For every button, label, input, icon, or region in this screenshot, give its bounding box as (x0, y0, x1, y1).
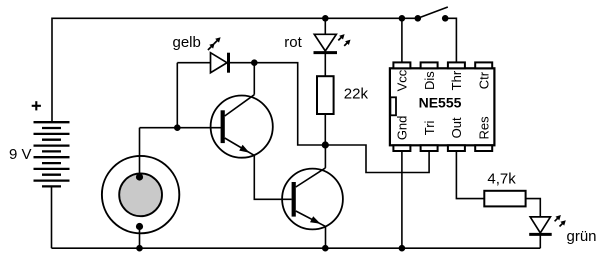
LED gruen (529, 217, 552, 248)
svg-text:Thr: Thr (449, 70, 464, 90)
wire gelb cathode to x297 column (254, 63, 325, 145)
svg-text:Out: Out (449, 117, 464, 138)
IC pin Ctr box (475, 62, 492, 68)
svg-text:Dis: Dis (422, 71, 437, 90)
LED gelb (177, 53, 254, 73)
LED gelb light arrows (208, 37, 221, 50)
battery B1 9V (34, 122, 70, 186)
wire Q2 emitter down (325, 226, 327, 248)
wire top rail right segment (445, 18, 456, 63)
sensor probe outer circle (102, 156, 179, 233)
IC pin Out box (448, 145, 465, 151)
node sensor top dot (136, 173, 143, 180)
svg-text:9 V: 9 V (9, 146, 32, 163)
wire battery minus to bottom rail (51, 186, 53, 248)
svg-text:Tri: Tri (422, 120, 437, 135)
svg-text:Ctr: Ctr (476, 71, 491, 89)
svg-text:Vcc: Vcc (395, 69, 410, 91)
svg-text:Res: Res (476, 116, 491, 140)
wire 22k to junction (324, 114, 326, 145)
wire bottom rail (52, 247, 541, 249)
transistor Q2 (282, 168, 343, 230)
LED gruen light arrows (555, 215, 566, 227)
wire Gnd pin to rail (401, 151, 403, 248)
node sensor rail junction (136, 245, 143, 252)
wire junction to Tri pin (325, 145, 429, 173)
LED rot (314, 18, 338, 76)
node Gnd rail junction (399, 245, 406, 252)
svg-text:Gnd: Gnd (395, 116, 410, 141)
IC pin Dis box (421, 62, 438, 68)
transistor Q1 (211, 95, 273, 158)
LED rot light arrows (338, 34, 350, 46)
svg-text:rot: rot (284, 34, 302, 51)
switch contact dot (442, 15, 449, 22)
wire top rail left segment (52, 18, 418, 122)
wire Q2 collector up (324, 145, 326, 168)
wire 4,7k to gruen LED (526, 199, 541, 217)
IC pin Thr box (448, 62, 465, 68)
node gelb cathode junction (251, 59, 258, 66)
switch pivot dot (415, 15, 422, 22)
node collector junction (322, 141, 329, 148)
wire gelb anode branch (176, 63, 178, 128)
node gelb branch junction (174, 124, 181, 131)
IC U1 NE555 body (390, 68, 495, 145)
svg-text:NE555: NE555 (419, 95, 462, 111)
wire Vcc pin to rail (401, 18, 403, 63)
sensor probe inner electrode (119, 173, 162, 216)
switch S1 lever (418, 7, 448, 18)
IC notch marker (390, 97, 396, 115)
resistor R1 22k (317, 76, 334, 114)
resistor R2 4,7k (484, 191, 525, 207)
IC pin Vcc box (393, 62, 410, 68)
IC pin Tri box (421, 145, 438, 151)
battery plus sign (32, 101, 41, 110)
wire sensor top (139, 128, 141, 177)
IC pin Gnd box (393, 145, 410, 151)
wire Q1 emitter to Q2 base (254, 155, 291, 199)
wire Out pin to 4,7k (456, 151, 484, 199)
svg-text:4,7k: 4,7k (487, 171, 516, 188)
node rot rail junction (322, 15, 329, 22)
wire sensor bottom (139, 227, 141, 249)
node sensor bottom dot (136, 223, 143, 230)
svg-text:grün: grün (567, 228, 597, 245)
wire Q1 collector up (253, 63, 255, 95)
svg-text:gelb: gelb (173, 34, 201, 51)
IC pin Res box (475, 145, 492, 151)
node Vcc rail junction (399, 15, 406, 22)
wire sensor to Q1 base (140, 127, 222, 129)
node Q2 emitter rail junction (322, 245, 329, 252)
svg-text:22k: 22k (344, 86, 369, 103)
